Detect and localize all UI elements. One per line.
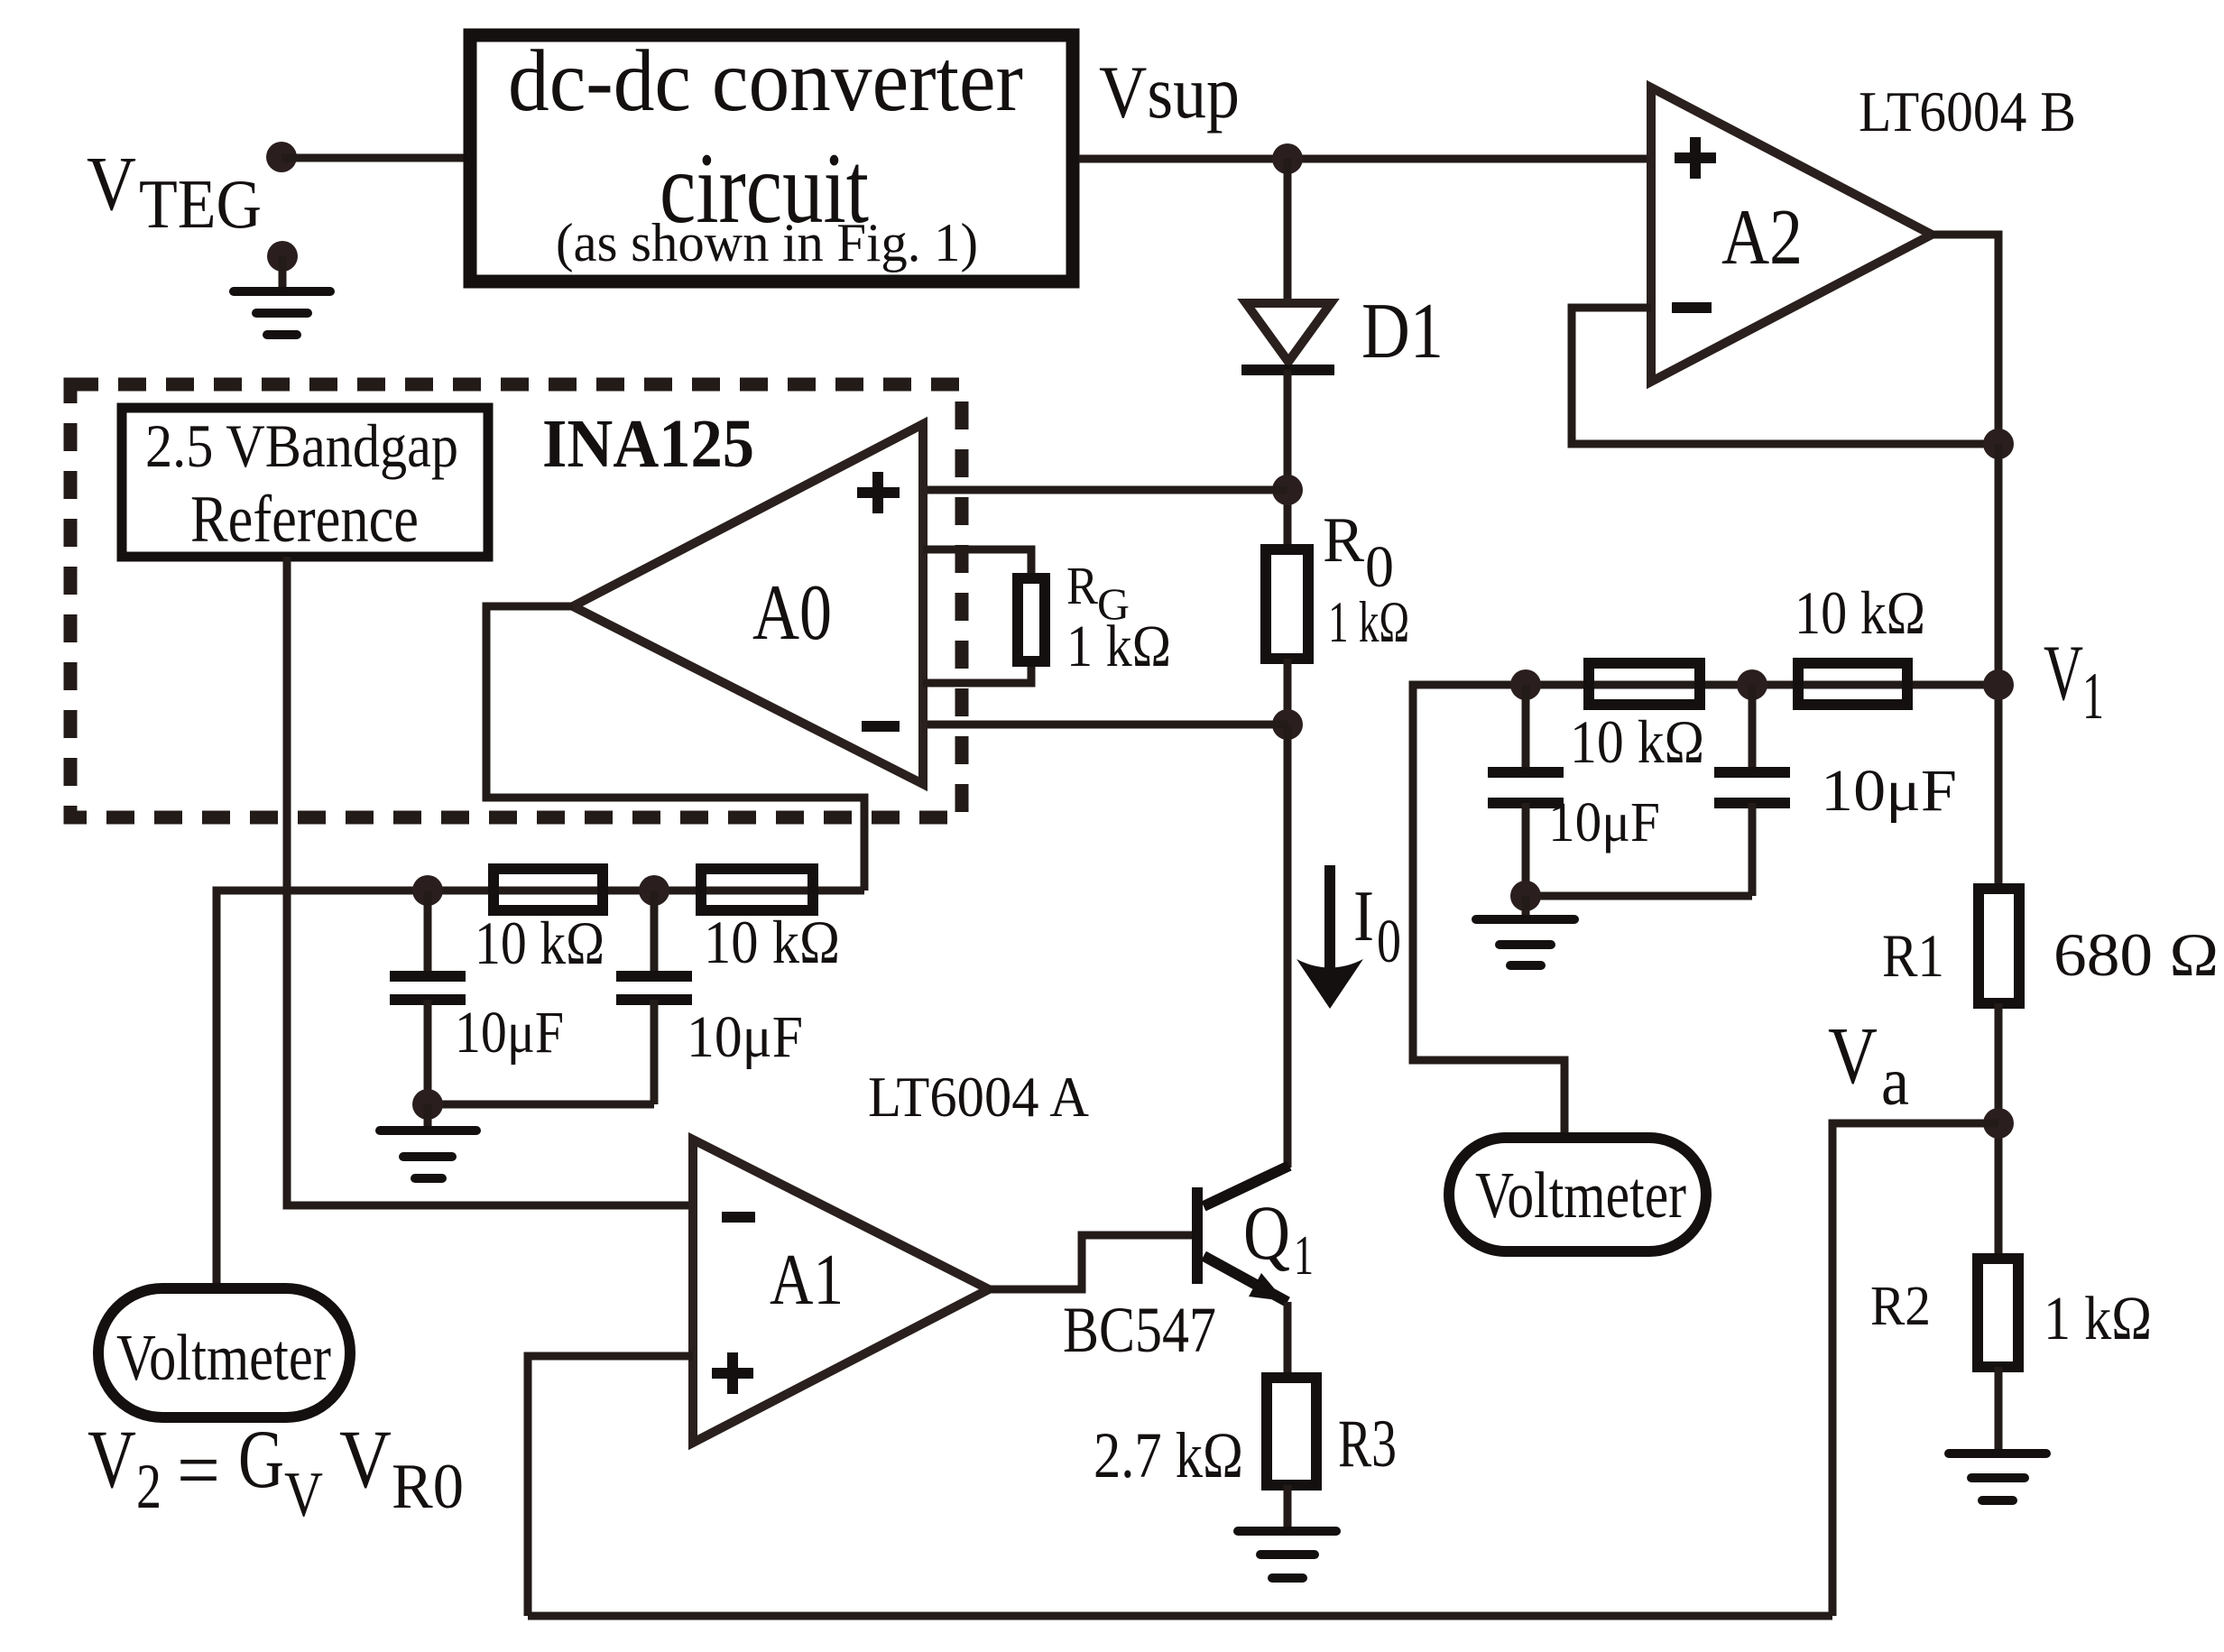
svg-text:10 kΩ: 10 kΩ — [1570, 707, 1704, 776]
wire Q1 emitter to R3 — [1284, 1302, 1292, 1378]
svg-text:G: G — [238, 1413, 284, 1505]
node right RC rail junction 1 — [1510, 669, 1541, 700]
svg-text:R1: R1 — [1882, 921, 1944, 990]
ground symbol right filter — [1476, 896, 1574, 965]
svg-text:10μF: 10μF — [687, 1004, 803, 1070]
svg-text:10 kΩ: 10 kΩ — [475, 909, 604, 977]
voltmeter right — [1449, 1138, 1706, 1251]
svg-text:10μF: 10μF — [1548, 792, 1660, 854]
svg-text:Q: Q — [1243, 1189, 1290, 1276]
capacitor 10uF right-2 — [1714, 685, 1790, 896]
node A2 feedback junction — [1983, 429, 2014, 459]
wire A0 minus input — [924, 721, 1287, 729]
svg-text:1 kΩ: 1 kΩ — [2044, 1284, 2152, 1352]
svg-text:R: R — [1066, 556, 1099, 615]
svg-text:LT6004 B: LT6004 B — [1859, 80, 2076, 143]
label V2 = GV VR0 equation — [88, 1413, 464, 1530]
capacitor 10uF left-1 — [390, 891, 466, 1104]
current arrow I0 — [1297, 865, 1363, 1009]
svg-text:R2: R2 — [1870, 1276, 1931, 1337]
wire left filter ground link — [428, 1101, 654, 1109]
wire A2 output — [1932, 235, 1998, 444]
svg-text:I: I — [1353, 877, 1374, 956]
svg-text:10μF: 10μF — [1821, 758, 1957, 824]
wire A1 plus input loop — [528, 1356, 693, 1616]
wire Vsup node to D1 anode — [1284, 159, 1292, 301]
dc-dc converter circuit box — [470, 32, 1073, 281]
wire A2 feedback loop — [1572, 308, 1998, 444]
svg-text:D1: D1 — [1361, 288, 1444, 375]
svg-text:Voltmeter: Voltmeter — [116, 1321, 331, 1394]
svg-text:INA125: INA125 — [542, 406, 754, 482]
capacitor 10uF left-2 — [616, 891, 692, 1104]
wire R0 node to Q1 collector — [1284, 724, 1292, 1167]
wire D1 cathode to R0 — [1284, 370, 1292, 549]
resistor R3 — [1267, 1378, 1316, 1485]
svg-text:2.5 VBandgap: 2.5 VBandgap — [145, 411, 458, 480]
svg-text:2: 2 — [136, 1452, 161, 1522]
node Va — [1983, 1108, 2014, 1139]
svg-text:Vsup: Vsup — [1099, 51, 1240, 134]
wire left RC filter rail — [217, 891, 864, 1283]
svg-text:R: R — [1323, 505, 1365, 576]
svg-text:V: V — [88, 1413, 136, 1505]
svg-text:V: V — [339, 1413, 392, 1505]
label V1 — [2044, 630, 2104, 734]
op-amp A2 — [1651, 88, 1932, 382]
ground symbol below R3 — [1238, 1485, 1336, 1578]
voltmeter V2 — [98, 1288, 350, 1417]
resistor RG with connection stubs — [923, 549, 1045, 683]
resistor 10k right-1 — [1589, 663, 1700, 705]
wire R1 to Va node — [1995, 1003, 2003, 1259]
svg-text:V: V — [87, 140, 136, 226]
svg-text:V: V — [1828, 1011, 1878, 1101]
svg-text:Voltmeter: Voltmeter — [1475, 1158, 1686, 1232]
resistor R2 — [1978, 1259, 2018, 1367]
svg-text:1: 1 — [2082, 660, 2104, 734]
node left RC rail junction 2 — [639, 875, 669, 906]
resistor R1 — [1979, 889, 2019, 1003]
svg-text:a: a — [1881, 1044, 1909, 1120]
op-amp A1 — [693, 1140, 989, 1443]
label VTEG — [87, 140, 262, 243]
svg-text:2.7 kΩ: 2.7 kΩ — [1094, 1419, 1243, 1491]
node right filter ground junction — [1510, 881, 1541, 911]
wire bottom feedback rail — [528, 1612, 1832, 1620]
svg-text:(as shown in Fig. 1): (as shown in Fig. 1) — [556, 213, 978, 272]
svg-text:A0: A0 — [752, 569, 832, 657]
dashed box INA125 — [70, 384, 962, 817]
resistor 10k right-2 — [1798, 663, 1907, 705]
ground symbol left filter — [380, 1104, 476, 1178]
node A0 plus junction — [1272, 475, 1303, 505]
ground symbol at VTEG — [234, 256, 330, 335]
wire A1 output to Q1 base — [989, 1235, 1192, 1289]
ground symbol below R2 — [1949, 1367, 2046, 1500]
svg-text:dc-dc converter: dc-dc converter — [508, 32, 1023, 129]
node right RC rail junction 2 — [1737, 669, 1767, 700]
wire A2 node to V1 node — [1995, 444, 2003, 889]
label I0 — [1353, 877, 1401, 975]
svg-text:10μF: 10μF — [455, 1000, 564, 1066]
label RG — [1066, 556, 1130, 629]
label R0 — [1323, 505, 1394, 600]
node left filter ground junction — [412, 1089, 443, 1120]
svg-text:=: = — [177, 1424, 220, 1516]
svg-text:TEG: TEG — [139, 165, 262, 243]
resistor 10k left-1 — [494, 869, 603, 910]
svg-text:LT6004 A: LT6004 A — [868, 1066, 1089, 1129]
svg-text:V: V — [2044, 630, 2083, 717]
node VTEG positive terminal — [266, 142, 297, 172]
node VTEG ground terminal — [267, 241, 298, 272]
wire R0 to minus node — [1284, 659, 1292, 724]
wire A0 plus input — [923, 486, 1287, 494]
node left RC rail junction 1 — [412, 875, 443, 906]
svg-text:Reference: Reference — [190, 483, 419, 557]
diode D1 — [1241, 303, 1334, 370]
node A0 minus junction — [1272, 709, 1303, 740]
resistor R0 — [1266, 549, 1308, 659]
wire right filter ground link — [1526, 892, 1752, 900]
svg-text:R0: R0 — [392, 1452, 464, 1522]
wire Va branch — [1832, 1123, 1998, 1616]
svg-text:V: V — [284, 1460, 323, 1530]
op-amp A0 — [573, 424, 923, 784]
capacitor 10uF right-1 — [1488, 685, 1564, 896]
svg-text:680 Ω: 680 Ω — [2053, 920, 2219, 989]
transistor Q1 — [1197, 1166, 1289, 1302]
svg-text:0: 0 — [1377, 907, 1401, 975]
svg-text:R3: R3 — [1338, 1407, 1397, 1481]
label Va — [1828, 1011, 1909, 1120]
wire A0 output tail — [486, 606, 864, 891]
wire Vsup rail to A2 plus input — [1079, 155, 1651, 163]
wire bandgap reference stem to A1 minus — [287, 557, 693, 1205]
svg-text:10 kΩ: 10 kΩ — [1795, 578, 1925, 647]
svg-text:A2: A2 — [1721, 194, 1803, 281]
svg-text:1 kΩ: 1 kΩ — [1066, 614, 1171, 679]
svg-text:1 kΩ: 1 kΩ — [1328, 590, 1409, 655]
svg-text:A1: A1 — [770, 1241, 844, 1320]
svg-text:BC547: BC547 — [1063, 1294, 1216, 1366]
node V1 — [1983, 669, 2014, 700]
wire right RC filter rail — [1413, 685, 1998, 1138]
svg-text:10 kΩ: 10 kΩ — [704, 908, 840, 976]
label Q1 — [1243, 1189, 1314, 1287]
wire VTEG to dc-dc converter — [281, 154, 470, 162]
box 2.5 V bandgap reference — [122, 408, 488, 557]
node Vsup junction — [1272, 143, 1303, 174]
resistor 10k left-2 — [701, 869, 813, 910]
svg-text:1: 1 — [1294, 1225, 1314, 1287]
